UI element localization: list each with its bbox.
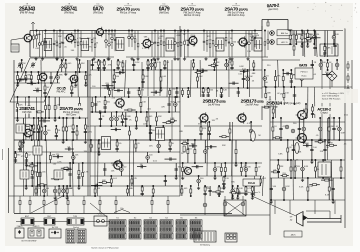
node <box>135 125 137 127</box>
resistor R65 <box>82 173 84 177</box>
wire y186 <box>14 185 180 187</box>
resistor R32 <box>30 76 32 80</box>
svg-text:Driver/Pickup: Driver/Pickup <box>264 106 278 109</box>
ground <box>107 57 110 61</box>
node <box>117 59 119 61</box>
node <box>237 87 239 89</box>
node <box>37 139 39 141</box>
wire <box>309 184 320 186</box>
wire vertical x270 <box>269 96 271 235</box>
resistor R158 <box>290 167 292 171</box>
svg-text:33K: 33K <box>280 166 284 168</box>
svg-text:10K: 10K <box>310 64 314 66</box>
svg-text:4.7K: 4.7K <box>306 36 311 38</box>
node <box>25 185 27 187</box>
resistor R17 <box>180 42 182 45</box>
node <box>22 139 24 141</box>
capacitor C43 <box>113 81 116 82</box>
capacitor C12 <box>333 45 336 46</box>
wire <box>267 20 269 22</box>
transistor Q5 2SA70 2nd IF <box>187 35 197 47</box>
capacitor C85 <box>208 133 211 134</box>
node <box>37 162 39 164</box>
node <box>154 59 156 61</box>
wire <box>116 112 118 126</box>
label 2SA70 FM 2nd IF Amp <box>181 6 204 17</box>
resistor R97 <box>156 117 158 121</box>
capacitor C63 <box>100 110 101 113</box>
resistor R148 <box>252 182 256 184</box>
resistor R114 <box>182 91 184 95</box>
capacitor C2 <box>53 44 55 45</box>
wire <box>14 152 16 163</box>
node <box>180 30 182 32</box>
wire long horizontal rule <box>14 213 232 215</box>
resistor R176 <box>272 109 274 113</box>
wire <box>20 140 22 152</box>
wire <box>142 70 144 88</box>
wire <box>298 118 300 140</box>
electrolytic capacitor CE12 <box>56 76 60 80</box>
node <box>287 139 289 141</box>
resistor R62 <box>58 189 60 193</box>
electrolytic CE10 <box>231 43 234 46</box>
capacitor C17 <box>20 78 21 81</box>
capacitor C34 <box>69 147 70 150</box>
node <box>95 96 97 98</box>
band switch contacts S5 row 3 <box>176 233 187 239</box>
capacitor C28 <box>44 119 45 122</box>
wire <box>209 186 211 196</box>
node <box>128 30 130 32</box>
resistor R40 <box>17 104 19 108</box>
capacitor C29 <box>14 160 17 161</box>
electrolytic capacitor CE46 <box>319 63 323 67</box>
resistor R179 <box>312 107 314 111</box>
node <box>104 96 106 98</box>
node <box>62 195 64 197</box>
node <box>110 185 112 187</box>
ground <box>214 57 217 61</box>
wire <box>72 118 74 140</box>
wire <box>347 61 349 71</box>
svg-text:6V Battery: 6V Battery <box>200 244 211 247</box>
ground <box>136 57 139 61</box>
resistor R74 <box>66 189 68 193</box>
label 2SA343 FM RF Amp <box>19 6 36 14</box>
capacitor C70 <box>175 169 178 170</box>
wire <box>314 160 316 178</box>
node <box>290 86 292 88</box>
resistor R178 <box>305 109 307 113</box>
wire <box>111 128 121 130</box>
svg-text:47K: 47K <box>97 101 101 103</box>
node <box>91 111 93 113</box>
capacitor C27 <box>84 131 87 132</box>
svg-text:6.8K: 6.8K <box>341 133 346 135</box>
wire <box>235 140 237 163</box>
resistor R19 <box>206 41 208 44</box>
resistor R99 <box>128 109 132 111</box>
svg-text:Switch: FM Position: Switch: FM Position <box>322 97 341 100</box>
wire <box>40 97 42 140</box>
resistor R61 <box>49 156 51 160</box>
capacitor C84 <box>199 133 202 134</box>
svg-text:4.7K: 4.7K <box>57 162 62 164</box>
wire <box>151 31 153 58</box>
svg-text:68K: 68K <box>191 143 195 145</box>
transistor Q16 <box>185 168 192 175</box>
resistor R142 <box>218 187 220 191</box>
electrolytic capacitor CE49 <box>332 35 336 39</box>
IF transformer T3 <box>116 38 124 51</box>
ground <box>75 57 78 61</box>
wire <box>66 186 68 196</box>
wire <box>324 44 326 57</box>
wire <box>91 97 93 112</box>
wire <box>261 20 263 31</box>
node <box>327 69 329 71</box>
wire <box>207 88 209 97</box>
capacitor C9 <box>245 44 247 45</box>
wire <box>254 31 256 48</box>
node <box>194 139 196 141</box>
node <box>190 195 192 197</box>
resistor R134 <box>235 150 237 154</box>
node <box>74 30 76 32</box>
capacitor C39 <box>67 168 68 171</box>
wire <box>33 90 42 92</box>
smudge <box>354 2 357 5</box>
node <box>277 159 279 161</box>
svg-text:15K: 15K <box>285 92 289 94</box>
capacitor C52 <box>120 71 121 74</box>
capacitor C109 <box>327 73 328 76</box>
capacitor C108 <box>287 72 288 75</box>
resistor R137 <box>222 136 226 138</box>
diode D1 AM det <box>270 31 275 36</box>
svg-text:15K: 15K <box>183 141 187 143</box>
resistor R18 <box>184 41 186 44</box>
capacitor C110 <box>297 73 298 76</box>
capacitor C94 <box>251 193 254 194</box>
resistor R122 <box>231 61 233 65</box>
IF transformer T8 <box>102 137 111 150</box>
wire <box>77 31 79 58</box>
resistor R63 <box>66 189 68 193</box>
resistor R76 <box>64 167 68 169</box>
electrolytic capacitor CE28 <box>225 63 229 67</box>
node <box>131 175 133 177</box>
resistor R28 <box>267 22 269 26</box>
wire <box>184 31 186 58</box>
ground <box>66 196 69 200</box>
capacitor C98 <box>298 128 301 129</box>
capacitor C114 <box>323 53 326 54</box>
wire <box>199 60 201 97</box>
wire <box>314 87 316 118</box>
wire <box>50 72 52 83</box>
resistor R181 <box>265 106 269 108</box>
svg-text:6.8K: 6.8K <box>144 76 149 78</box>
capacitor C77 <box>220 95 223 96</box>
node <box>147 69 149 71</box>
node <box>48 96 50 98</box>
ground <box>135 126 138 130</box>
antenna coil L1 <box>11 44 19 52</box>
wire <box>160 31 162 58</box>
wire long bus y140 <box>14 139 352 141</box>
wire <box>137 166 146 168</box>
wire <box>66 118 68 140</box>
capacitor C5 <box>154 42 156 43</box>
wire <box>181 186 183 196</box>
capacitor C40 <box>91 64 94 65</box>
resistor R186 <box>324 47 326 51</box>
svg-text:(2SB) (push-pull): (2SB) (push-pull) <box>283 103 301 105</box>
capacitor C51 <box>107 84 108 87</box>
resistor R right-edge 2 <box>347 76 349 80</box>
wire <box>175 163 177 176</box>
svg-text:(FM RF Amp): (FM RF Amp) <box>20 11 35 14</box>
wire <box>165 158 177 160</box>
capacitor C25 <box>71 131 74 132</box>
node <box>283 103 285 105</box>
transistor Q1 2SA343 RF amp <box>22 32 32 43</box>
wire <box>314 200 316 214</box>
capacitor C106 <box>290 81 293 82</box>
ground <box>302 140 305 144</box>
wire <box>267 31 269 51</box>
wire <box>43 196 45 214</box>
wire <box>46 140 47 196</box>
wire <box>182 163 184 176</box>
wire <box>25 152 27 163</box>
ground <box>152 57 155 61</box>
node <box>160 30 162 32</box>
resistor R85 <box>147 61 149 65</box>
ground <box>301 178 304 182</box>
node <box>274 86 276 88</box>
resistor R16 <box>177 43 179 46</box>
svg-text:47K: 47K <box>277 75 281 77</box>
node <box>245 185 247 187</box>
resistor R14 <box>160 41 162 44</box>
wire <box>37 184 47 186</box>
wire <box>82 163 84 186</box>
band switch contacts S2 row 2 <box>129 227 141 233</box>
transistor Q12 2SB173 1st AF <box>198 112 208 124</box>
node <box>99 125 101 127</box>
resistor R167 <box>283 175 287 177</box>
node <box>223 185 225 187</box>
wire <box>347 85 349 95</box>
node <box>290 69 292 71</box>
capacitor C96 <box>279 128 282 129</box>
svg-text:15K: 15K <box>329 143 333 145</box>
resistor R93 <box>129 131 131 135</box>
wire <box>301 31 303 45</box>
node <box>332 199 334 201</box>
wire <box>336 60 338 70</box>
ground <box>74 83 77 87</box>
capacitor C44 <box>116 67 119 68</box>
svg-text:FM AFC: FM AFC <box>57 91 66 94</box>
wire right edge vertical <box>351 60 353 160</box>
capacitor C41 <box>97 67 100 68</box>
band switch contacts S4 row 2 <box>160 227 173 233</box>
wire <box>289 31 291 45</box>
wire <box>99 181 111 183</box>
wire <box>187 88 189 97</box>
wire <box>307 178 309 200</box>
wire <box>131 31 133 48</box>
wire y87 right <box>262 86 352 88</box>
resistor R117 <box>197 77 199 81</box>
capacitor C89 <box>203 193 206 194</box>
wire <box>168 120 177 122</box>
node <box>287 159 289 161</box>
resistor R135 <box>240 168 242 172</box>
wire <box>84 118 86 140</box>
svg-text:47K: 47K <box>161 107 165 109</box>
wire y126 AF <box>184 125 262 127</box>
label 0A79 AM Det <box>159 6 170 14</box>
wire <box>54 186 56 196</box>
wire <box>302 160 304 178</box>
node <box>113 87 115 89</box>
node <box>98 59 100 61</box>
svg-text:33K: 33K <box>81 63 85 65</box>
wire y122 right <box>270 121 345 123</box>
capacitor C23 <box>37 131 40 132</box>
node <box>62 139 64 141</box>
wire <box>113 70 115 88</box>
node <box>247 87 249 89</box>
node <box>213 69 215 71</box>
resistor R24 <box>264 42 266 45</box>
capacitor C93 <box>244 193 247 194</box>
wire <box>51 178 63 180</box>
wire <box>329 211 331 219</box>
node <box>113 69 115 71</box>
ground <box>197 186 200 190</box>
node <box>187 139 189 141</box>
svg-text:10K: 10K <box>149 129 153 131</box>
wire <box>91 60 93 70</box>
capacitor C47 <box>141 81 144 82</box>
wire <box>137 31 139 58</box>
wire <box>110 112 112 126</box>
wire <box>39 120 50 122</box>
ground <box>25 186 28 190</box>
capacitor C3 <box>62 42 64 43</box>
wire <box>240 163 242 176</box>
wire <box>326 118 328 160</box>
IF transformer T4 <box>166 38 174 51</box>
node <box>125 125 127 127</box>
wire <box>104 87 112 89</box>
connector grid A <box>66 229 75 243</box>
wire <box>72 140 73 196</box>
resistor R83 <box>138 91 140 95</box>
resistor R160 <box>307 187 309 191</box>
transistor Q9 AM conv <box>22 127 32 138</box>
node <box>283 199 285 201</box>
svg-text:47K: 47K <box>68 126 72 128</box>
ground <box>34 57 37 61</box>
svg-text:Germanium Tr: Germanium Tr <box>247 191 261 194</box>
resistor R152 <box>287 148 289 152</box>
resistor R133 <box>229 129 231 133</box>
node <box>151 59 153 61</box>
electrolytic CE5 <box>223 202 227 206</box>
wire bus y70 <box>90 69 262 71</box>
resistor R164 <box>325 179 329 181</box>
resistor R159 <box>294 167 296 171</box>
resistor R192 <box>67 201 69 205</box>
wire <box>203 31 205 51</box>
wire <box>263 106 271 108</box>
wire bus y176 <box>90 175 262 177</box>
wire <box>322 160 324 178</box>
wire <box>311 60 313 70</box>
wire <box>206 122 209 176</box>
transistor Q6 2SA70 3rd IF <box>237 36 247 48</box>
node <box>314 159 316 161</box>
node <box>294 86 296 88</box>
variable capacitor VC2 <box>31 62 36 68</box>
wire <box>79 97 81 118</box>
svg-text:8.2K: 8.2K <box>303 139 308 141</box>
capacitor C35 <box>57 155 58 158</box>
node <box>45 30 47 32</box>
wire <box>333 31 335 45</box>
node <box>307 43 309 45</box>
svg-text:10K: 10K <box>335 34 339 36</box>
node <box>301 30 303 32</box>
node <box>250 121 252 123</box>
resistor R132 <box>224 168 226 172</box>
resistor R139 <box>181 189 183 193</box>
node <box>280 139 282 141</box>
node <box>54 117 56 119</box>
ground <box>106 57 109 61</box>
resistor R127 <box>187 150 189 154</box>
wire <box>115 72 125 74</box>
wire y60 right <box>262 59 300 61</box>
wire bus y163 <box>14 162 262 164</box>
transistor Q14 2SB324 driver <box>296 109 307 121</box>
capacitor C22 <box>32 131 35 132</box>
node <box>61 59 63 61</box>
label 0A70-2 <box>267 3 281 12</box>
resistor R120 <box>213 63 215 67</box>
node <box>37 117 39 119</box>
wire <box>62 118 64 140</box>
node <box>295 43 297 45</box>
resistor R15 <box>163 42 165 45</box>
band switch contacts S1 row 1 <box>109 220 126 226</box>
node <box>203 30 205 32</box>
node <box>98 151 100 153</box>
wire <box>304 38 312 40</box>
node <box>289 30 291 32</box>
smudge <box>330 5 331 6</box>
svg-text:68K: 68K <box>144 36 148 38</box>
svg-text:2nd AF Amp: 2nd AF Amp <box>245 104 259 107</box>
wire <box>182 88 184 97</box>
